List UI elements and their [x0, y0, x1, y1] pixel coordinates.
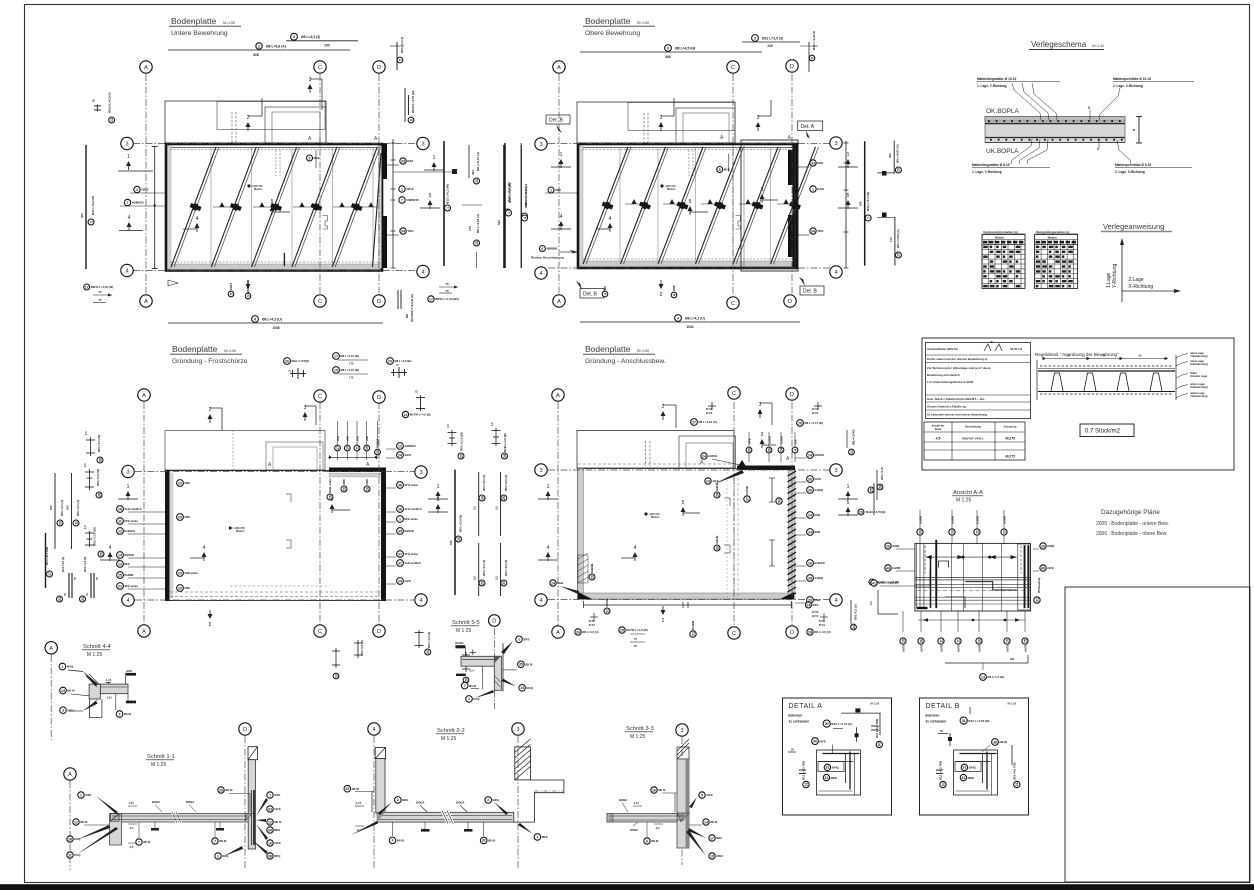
detail A top leader with M mark [841, 712, 880, 714]
svg-text:xWTB: xWTB [919, 645, 923, 652]
svg-text:C: C [731, 65, 735, 71]
svg-text:Ø12 L=4,70 KB: Ø12 L=4,70 KB [968, 719, 990, 723]
svg-text:Ø8 /B: Ø8 /B [225, 788, 232, 792]
svg-text:20: 20 [365, 487, 369, 491]
plan1 interior tick marks [219, 202, 224, 207]
svg-text:28: 28 [97, 493, 101, 497]
svg-text:20: 20 [342, 487, 346, 491]
regeldetail lower table box [924, 422, 1025, 460]
svg-text:2xW/B: 2xW/B [1002, 516, 1006, 524]
svg-text:Ø8/B: Ø8/B [968, 776, 974, 780]
svg-text:1: 1 [536, 835, 538, 839]
svg-text:1,5: 1,5 [83, 463, 87, 467]
plan3 bottom dashed inner lines [170, 591, 381, 593]
svg-text:A: A [142, 629, 146, 635]
svg-text:D: D [377, 299, 381, 305]
svg-text:3: 3 [62, 709, 64, 713]
plan4 section arrow 5 right [846, 500, 851, 516]
svg-text:Mattenlängsstäbe Ø 10-15: Mattenlängsstäbe Ø 10-15 [977, 77, 1017, 81]
svg-text:Ø12 L=5,2 (W): Ø12 L=5,2 (W) [866, 192, 870, 211]
svg-text:xWTB: xWTB [1005, 645, 1009, 652]
plan2 right bubble 34 [810, 228, 824, 234]
svg-text:Matten: Matten [995, 235, 1005, 239]
schnitt11 left leader fan [96, 796, 118, 814]
svg-text:540: 540 [859, 201, 863, 206]
plan2 interior bubble 5 M18 [717, 167, 730, 173]
svg-text:BØG: BØG [402, 798, 408, 802]
svg-text:2: 2 [258, 44, 260, 48]
plan3 right bubble column [397, 443, 417, 450]
svg-text:36: 36 [398, 483, 402, 487]
schnitt44 leader fan hatch bottom [83, 701, 98, 711]
svg-text:2Ø8: 2Ø8 [555, 188, 561, 192]
plan3 grid circle 3 right [415, 466, 427, 478]
svg-text:31: 31 [398, 561, 402, 565]
svg-text:C: C [318, 394, 322, 400]
svg-text:11: 11 [355, 446, 359, 450]
svg-text:31: 31 [962, 766, 966, 770]
plan3 grid circle D top [373, 391, 385, 403]
svg-text:3xW/B: 3xW/B [814, 488, 823, 492]
svg-text:14: 14 [704, 820, 708, 824]
svg-text:2xFE: 2xFE [814, 477, 821, 481]
plan3 left inner gray strip [170, 473, 173, 598]
plan1 section arrow 2 top [246, 115, 251, 131]
svg-text:26: 26 [808, 488, 812, 492]
plan4 bubble 24 top corner [701, 453, 717, 459]
ansicht AA left inner frame lines [916, 544, 918, 609]
svg-text:20: 20 [178, 481, 182, 485]
svg-text:12: 12 [110, 118, 114, 122]
plan1 axis dash-dot vertical C [319, 74, 321, 295]
verlegeschema leader bottom-left [1011, 139, 1032, 164]
schnitt22 bubble 2 right [485, 797, 499, 804]
plan3 axis dash-dot vertical A [143, 402, 145, 625]
svg-text:11: 11 [956, 639, 960, 643]
svg-text:BOBA: BOBA [186, 800, 194, 804]
svg-text:OK.BOPLA: OK.BOPLA [986, 108, 1020, 115]
svg-text:xWTB: xWTB [1023, 645, 1027, 652]
svg-text:BOBA: BOBA [630, 828, 638, 832]
svg-text:DAØ: DAØ [817, 187, 824, 191]
plan4 grid circle D bottom [786, 626, 798, 638]
svg-text:M=1:10: M=1:10 [1092, 44, 1104, 48]
plan3 section arrow 1 left [126, 484, 131, 500]
svg-text:31: 31 [824, 776, 828, 780]
svg-text:1. Lage, Y-Richtung: 1. Lage, Y-Richtung [977, 84, 1007, 88]
svg-text:D: D [377, 629, 381, 635]
svg-text:1: 1 [269, 793, 271, 797]
svg-text:3: 3 [761, 432, 764, 438]
svg-text:26: 26 [977, 639, 981, 643]
plan4 center stamp [644, 512, 647, 515]
bottom-right title block empty box [1065, 587, 1250, 882]
svg-text:31: 31 [691, 632, 695, 636]
svg-text:30: 30 [813, 739, 817, 743]
svg-text:7: 7 [214, 839, 216, 843]
svg-text:24: 24 [551, 581, 555, 585]
svg-text:BØG: BØG [493, 798, 499, 802]
schnitt55 dim marks [470, 650, 476, 656]
plan2 section arrow 2 bottom [659, 280, 664, 296]
plan3 right line pair B lower [500, 543, 502, 596]
svg-text:Mattenquerstäbe Ø 8-15: Mattenquerstäbe Ø 8-15 [1115, 163, 1151, 167]
svg-text:DFE anlee: DFE anlee [404, 517, 418, 521]
detail A left rotated bubble 31 [788, 751, 796, 753]
regeldetail schematic bottom dashed bar [1040, 393, 1173, 395]
svg-text:40: 40 [1041, 566, 1045, 570]
svg-text:VxB axHSch: VxB axHSch [404, 561, 421, 565]
svg-text:11: 11 [74, 521, 78, 525]
plan3 above-corner bubble 15 [375, 438, 381, 454]
svg-text:Ansicht A-A: Ansicht A-A [953, 490, 983, 496]
schnitt33 bubble 14 [703, 819, 718, 825]
schnitt22 right big hatched block [515, 747, 531, 780]
plan1 interior dashed notch near axis C [323, 216, 328, 230]
plan2 grid circle D top [786, 60, 798, 72]
plan3 interior small notch middle [286, 540, 291, 548]
schnitt44 bubble 3 [60, 707, 75, 714]
svg-text:27: 27 [692, 420, 696, 424]
svg-text:19: 19 [334, 368, 338, 372]
schnitt11 dim small 1,15 [128, 805, 137, 807]
schnitt55 bubble 1 WFE [516, 636, 530, 643]
svg-text:Ø8 L=4,94 (U): Ø8 L=4,94 (U) [698, 420, 717, 424]
svg-text:3: 3 [293, 35, 295, 39]
svg-text:34: 34 [811, 229, 815, 233]
svg-text:-0,4: -0,4 [129, 826, 134, 830]
svg-text:2xW/B: 2xW/B [918, 516, 922, 524]
schnitt44 right +0 mark [125, 673, 136, 676]
svg-text:A: A [556, 393, 560, 399]
svg-text:2Ø12: 2Ø12 [141, 188, 149, 192]
svg-text:4: 4 [196, 216, 199, 222]
svg-text:DETAIL A: DETAIL A [789, 703, 823, 710]
svg-text:M 1:25: M 1:25 [87, 652, 103, 658]
svg-text:WFE: WFE [85, 793, 91, 797]
plan4 left bubble 24 bottom corner [550, 580, 563, 586]
svg-text:4: 4 [372, 727, 375, 733]
svg-text:13: 13 [61, 689, 65, 693]
schnitt44 wall lower white outline [90, 699, 102, 718]
svg-text:4: 4 [560, 214, 563, 220]
svg-text:33: 33 [268, 807, 272, 811]
plan4 axis dash-dot horizontal 3 [548, 469, 830, 471]
svg-text:26: 26 [886, 544, 890, 548]
inter-plan tick dimension [393, 171, 455, 173]
left margin thick line group [45, 533, 47, 588]
svg-text:Ø8/15 L=4,5 (O): Ø8/15 L=4,5 (O) [108, 92, 112, 113]
svg-text:M 1:25: M 1:25 [956, 498, 972, 504]
plan3 grid circle A bottom [138, 625, 150, 637]
svg-text:-1,15: -1,15 [633, 801, 639, 805]
ansicht AA left bubble 41 with bracket [871, 580, 898, 586]
svg-text:WFE: WFE [819, 739, 825, 743]
svg-text:31: 31 [1035, 598, 1039, 602]
svg-text:31: 31 [804, 783, 808, 787]
svg-text:4: 4 [834, 270, 837, 276]
svg-text:175: 175 [349, 362, 354, 366]
svg-text:18: 18 [68, 837, 72, 841]
schnitt33 bubble 10 [709, 853, 724, 859]
svg-text:D: D [788, 299, 792, 305]
svg-text:Vorderansichtsmatten (u): Vorderansichtsmatten (u) [983, 230, 1018, 234]
plan4 top-right thick black segment [737, 466, 795, 471]
svg-text:Ø8 L=6,97 (A): Ø8 L=6,97 (A) [476, 152, 480, 171]
svg-text:4: 4 [539, 271, 542, 277]
svg-text:2xW/B: 2xW/B [708, 454, 717, 458]
double tick mark below plan1 [397, 290, 399, 309]
verlegeschema leader lines top-left [1012, 83, 1041, 120]
plan4 grid circle 4 right [830, 594, 842, 606]
plan1 far-left rotated marks 12 cluster [94, 104, 101, 111]
svg-text:2: 2 [659, 290, 662, 296]
schnitt11 bubble 1 DWG bottom [215, 853, 229, 859]
svg-text:-1,51: -1,51 [106, 696, 113, 700]
svg-text:4: 4 [421, 270, 424, 276]
schnitt11 slab band [110, 814, 249, 823]
schnitt44 bubble 9 [116, 711, 131, 718]
svg-text:16: 16 [520, 686, 524, 690]
svg-text:WFE: WFE [274, 793, 280, 797]
plan1 left bubble 7 [124, 199, 144, 205]
plan2 far right vertical bar [864, 141, 866, 265]
svg-text:40: 40 [886, 566, 890, 570]
svg-text:31: 31 [1015, 783, 1019, 787]
plan4 grid circle 3 left [535, 464, 547, 476]
svg-text:33: 33 [811, 161, 815, 165]
svg-text:25: 25 [345, 787, 349, 791]
schnitt55 left BOBA tick top [455, 645, 465, 648]
svg-text:DAQ: DAQ [222, 854, 229, 858]
plan1 inner dashed line above bottom border [170, 261, 380, 263]
svg-text:M18: M18 [817, 161, 823, 165]
svg-text:1: 1 [847, 484, 850, 490]
svg-text:MFQ: MFQ [274, 854, 281, 858]
schnitt11 right leader fan [256, 798, 268, 816]
svg-text:2: 2 [397, 798, 399, 802]
ansicht AA bottom bubble row rotated [902, 611, 904, 632]
svg-text:24: 24 [779, 448, 783, 452]
schnitt11 axis circle A [64, 768, 76, 780]
svg-text:Ø8 L=4,5 (U): Ø8 L=4,5 (U) [582, 630, 598, 634]
plan1 bottom-left angle mark [168, 280, 178, 286]
svg-text:20: 20 [388, 359, 392, 363]
cluster below plan3 left of schnitt55 b [354, 640, 362, 658]
svg-text:MxW/B: MxW/B [691, 621, 695, 630]
svg-text:3: 3 [834, 141, 837, 147]
plan4 interior dashed axis C vertical [733, 468, 735, 599]
plan2 bottom dimension line with bubble 4 [580, 321, 800, 323]
svg-text:26: 26 [219, 788, 223, 792]
svg-text:Ø8 L=4,74 (B): Ø8 L=4,74 (B) [804, 421, 823, 425]
svg-text:Ø8 L=2,5 (U): Ø8 L=2,5 (U) [854, 604, 858, 620]
svg-text:16: 16 [480, 496, 484, 500]
schnitt44 wall block gray [89, 684, 100, 699]
plan2 grid circle A top [553, 61, 565, 73]
inter-plan vertical bar rotated label 1 [505, 209, 511, 215]
plan1 left cut arrow 4 [127, 215, 132, 231]
svg-text:Ø12 L=5,2 (W): Ø12 L=5,2 (W) [446, 184, 450, 204]
schnitt11 bubble 11 [67, 852, 81, 858]
svg-text:2,5: 2,5 [869, 601, 873, 605]
svg-text:Ø8 L=1,5 (W): Ø8 L=1,5 (W) [96, 469, 100, 486]
plan1 grid circle C top [314, 61, 326, 73]
svg-text:15: 15 [118, 573, 122, 577]
svg-text:2xW/B: 2xW/B [950, 516, 954, 524]
svg-text:3,5: 3,5 [495, 506, 499, 510]
inter-plan vertical bar rotated label 9 [522, 213, 528, 219]
75/75 dimension marks below plan1 [439, 286, 458, 288]
svg-text:3xB /B: 3xB /B [715, 483, 719, 491]
svg-text:Bewehrung erforderlich: Bewehrung erforderlich [927, 373, 960, 377]
svg-text:1: 1 [399, 517, 401, 521]
svg-text:M=1:50: M=1:50 [637, 21, 649, 25]
svg-text:Schnitt 4-4: Schnitt 4-4 [83, 644, 111, 650]
svg-text:xWTB: xWTB [901, 645, 905, 652]
plan2 section arrow 2 top [659, 115, 664, 131]
schnitt33 bubble 17 [709, 835, 723, 841]
svg-text:BOBA: BOBA [456, 801, 465, 805]
svg-text:2: 2 [487, 798, 489, 802]
svg-text:6: 6 [541, 247, 543, 251]
svg-text:2005 : Bodenplatte - untere Be: 2005 : Bodenplatte - untere Bew. [1096, 521, 1169, 527]
svg-text:Ø8 L=4,5 (3): Ø8 L=4,5 (3) [83, 557, 87, 572]
svg-text:4: 4 [634, 545, 637, 551]
svg-text:Dazugehörige Pläne: Dazugehörige Pläne [1101, 509, 1160, 516]
svg-text:2x8/B: 2x8/B [892, 544, 899, 548]
svg-text:10: 10 [475, 179, 479, 183]
svg-text:33: 33 [401, 159, 405, 163]
svg-text:1008: 1008 [272, 326, 279, 330]
plan3 section arrow 3 top [303, 405, 308, 421]
plan2 diagonal rebar lines with bundle marks [583, 147, 628, 264]
svg-text:NFE anlee: NFE anlee [124, 584, 138, 588]
svg-text:7: 7 [138, 840, 140, 844]
svg-text:240: 240 [767, 44, 773, 48]
svg-text:20: 20 [178, 571, 182, 575]
plan1 right extra thick black bar upper [382, 143, 388, 179]
plan4 axis dash-dot horizontal 4 [548, 599, 830, 601]
svg-text:Ø8 L=4,94 (A): Ø8 L=4,94 (A) [896, 229, 900, 248]
svg-text:MxB anlee: MxB anlee [328, 478, 332, 493]
plan4 section arrow 1 right [846, 484, 851, 500]
svg-text:-0,4: -0,4 [655, 826, 660, 830]
plan1 axis dash-dot vertical A [145, 74, 147, 295]
svg-text:BOBA: BOBA [619, 798, 627, 802]
schnitt55 wall right edge line [502, 643, 504, 691]
svg-text:Y-Richtung: Y-Richtung [1112, 264, 1118, 288]
plan3 section arrow 5 interior [330, 497, 335, 513]
svg-text:175: 175 [468, 226, 472, 231]
schnitt44 axis circle A [45, 642, 57, 654]
plan4 grid circle A top [552, 389, 564, 401]
svg-text:3x10 axHSch: 3x10 axHSch [404, 507, 422, 511]
svg-text:35: 35 [519, 663, 523, 667]
svg-text:Verlegeschema: Verlegeschema [1031, 40, 1087, 49]
svg-text:A: A [68, 772, 72, 778]
ansicht AA main outline [915, 543, 1031, 611]
svg-text:BOBA: BOBA [455, 641, 463, 645]
plan4 interior bubble 27 dim [744, 486, 750, 502]
plan1 center product stamp [247, 184, 250, 187]
svg-text:Ø12 L=4,70 (U): Ø12 L=4,70 (U) [831, 722, 852, 726]
svg-text:3Ø12: 3Ø12 [67, 708, 74, 712]
plan4 right margin bracket dims [771, 478, 773, 502]
svg-text:5: 5 [847, 193, 850, 199]
schnitt22 bubble 1 far right [534, 834, 548, 841]
svg-text:Ø8/15 L=1,00 (W): Ø8/15 L=1,00 (W) [91, 285, 114, 289]
svg-text:14: 14 [404, 413, 408, 417]
svg-text:1: 1 [547, 484, 550, 490]
svg-text:3: 3 [126, 470, 129, 476]
svg-text:4: 4 [609, 216, 612, 222]
plan4 right band black diagonal ticks [788, 471, 797, 476]
svg-text:Bodenplatte: Bodenplatte [585, 344, 631, 354]
svg-text:-4,5: -4,5 [129, 845, 134, 849]
svg-text:Ø8 /B: Ø8 /B [651, 839, 658, 843]
svg-text:Ø8 L=4,5 (3): Ø8 L=4,5 (3) [61, 557, 65, 572]
svg-text:A: A [556, 630, 560, 636]
plan1 grid circle 4 left [121, 264, 133, 276]
detail A bubble 30 WFE [812, 738, 826, 745]
svg-text:M 1:25: M 1:25 [630, 734, 646, 740]
svg-text:A: A [144, 299, 148, 305]
svg-text:5: 5 [398, 59, 402, 61]
svg-text:1. Lage, Y-Richtung: 1. Lage, Y-Richtung [972, 170, 1002, 174]
plan1 diagonal rebar lines with bundle marks [171, 147, 216, 267]
svg-text:Ø8 L=4,3 (4): Ø8 L=4,3 (4) [400, 37, 404, 53]
svg-text:Ø8 L=1,15 (B): Ø8 L=1,15 (B) [340, 368, 359, 372]
svg-text:12: 12 [268, 820, 272, 824]
schnitt55 slab band horizontal [461, 656, 501, 666]
svg-text:xWTB: xWTB [977, 645, 981, 652]
svg-text:-1,15: -1,15 [128, 801, 134, 805]
svg-text:Ø8 L=2,5 (3): Ø8 L=2,5 (3) [504, 560, 508, 576]
svg-text:UK.BOPLA: UK.BOPLA [986, 148, 1019, 155]
plan3 left bubble column [117, 506, 142, 513]
schnitt11 slab break marks [172, 812, 181, 823]
plan4 bottom gray band [578, 593, 795, 599]
svg-text:3xMØ/15: 3xMØ/15 [404, 444, 416, 448]
svg-text:A: A [144, 65, 148, 71]
svg-text:4xFE: 4xFE [706, 793, 713, 797]
svg-text:Ø8 L=4,2 (U): Ø8 L=4,2 (U) [685, 317, 705, 321]
svg-text:2Ø12: 2Ø12 [716, 854, 723, 858]
svg-text:Ø8 L=4,94 (A): Ø8 L=4,94 (A) [476, 214, 480, 233]
plan1 main slab outline thick borders [166, 144, 382, 271]
svg-text:2Ø4Q: 2Ø4Q [999, 740, 1007, 744]
svg-text:10: 10 [1005, 639, 1009, 643]
left margin double-line pair 2 [90, 573, 92, 598]
svg-text:MxB: MxB [814, 530, 820, 534]
svg-text:Ø8 L=4,3 (3): Ø8 L=4,3 (3) [301, 35, 320, 39]
svg-text:30: 30 [747, 448, 751, 452]
plan2 interior bay division lines [619, 147, 621, 261]
svg-text:20: 20 [464, 678, 468, 682]
plan1 grid circle 3 right [417, 137, 429, 149]
schnitt11 axis circle D [239, 723, 251, 735]
svg-text:26: 26 [502, 496, 506, 500]
schnitt33 rebar lines [609, 815, 684, 817]
schnitt55 axis circle D [489, 615, 501, 627]
svg-text:75: 75 [445, 282, 449, 286]
svg-text:Obere Bewehrung: Obere Bewehrung [585, 30, 640, 37]
svg-text:Ø12 L=5,2 FW: Ø12 L=5,2 FW [91, 196, 95, 215]
schnitt22 wall corner darks [377, 812, 385, 822]
svg-text:1: 1 [61, 665, 63, 669]
svg-text:Ø8 /B: Ø8 /B [143, 840, 150, 844]
